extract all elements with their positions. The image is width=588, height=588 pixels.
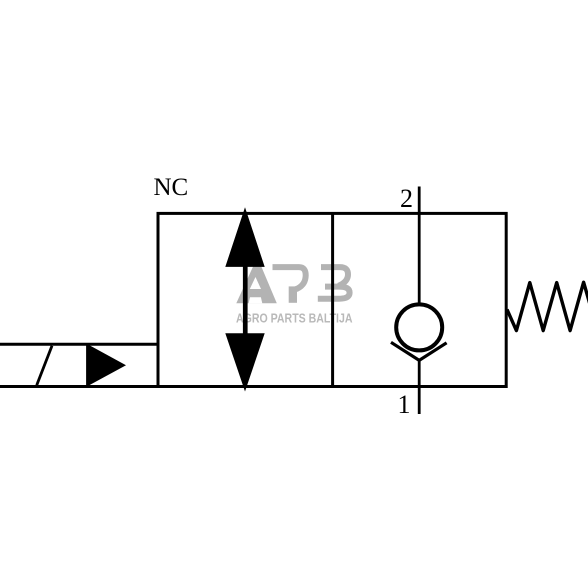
watermark letter A — [236, 266, 276, 303]
flow path arrow — [225, 207, 264, 391]
check valve seat — [391, 342, 447, 360]
check valve ball — [396, 304, 442, 350]
watermark letter P — [273, 267, 306, 303]
port 2 line — [418, 187, 421, 307]
solenoid arrow — [89, 345, 127, 386]
solenoid coil diagonal — [37, 346, 52, 385]
svg-text:NC: NC — [154, 174, 189, 201]
port 1 line — [418, 359, 421, 414]
return spring — [507, 282, 588, 330]
valve body box — [158, 213, 506, 386]
solenoid box — [0, 344, 158, 386]
valve position divider — [331, 213, 334, 386]
svg-text:AGRO PARTS BALTIJA: AGRO PARTS BALTIJA — [236, 311, 353, 326]
watermark letter B — [318, 267, 350, 299]
solenoid divider — [86, 344, 89, 386]
svg-text:2: 2 — [400, 184, 413, 213]
svg-text:1: 1 — [398, 390, 411, 419]
